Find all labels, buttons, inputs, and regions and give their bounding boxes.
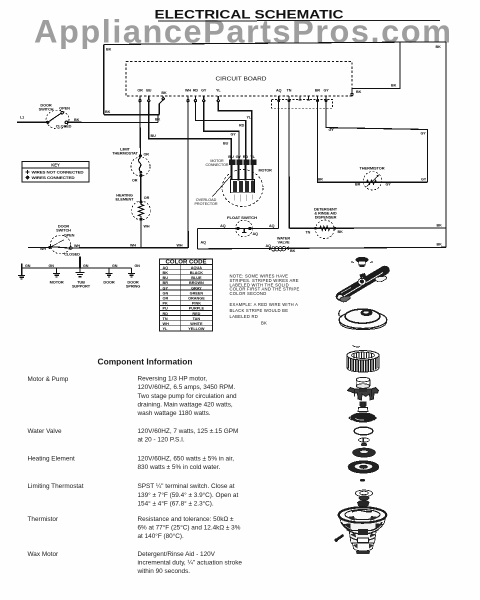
svg-text:BLUE: BLUE bbox=[191, 276, 202, 280]
svg-text:120V/60HZ, 7 watts, 125 ±.15 G: 120V/60HZ, 7 watts, 125 ±.15 GPM bbox=[138, 428, 239, 435]
pump bolt bbox=[335, 535, 344, 542]
spray arm bbox=[336, 266, 389, 300]
svg-text:RED: RED bbox=[192, 312, 200, 316]
wire door switch to WH bottom bbox=[72, 247, 81, 249]
spray arm clip right bbox=[375, 276, 387, 282]
overload protector OL1 bbox=[194, 175, 232, 206]
board pin RD bbox=[193, 89, 199, 102]
svg-text:OPEN: OPEN bbox=[64, 232, 75, 237]
svg-text:AQUA: AQUA bbox=[191, 266, 202, 270]
parts diagram bbox=[335, 257, 390, 554]
svg-text:TN: TN bbox=[163, 317, 168, 321]
wire float switch line bbox=[198, 228, 279, 230]
spray arm clip left bbox=[340, 296, 350, 302]
color code table bbox=[160, 259, 213, 331]
svg-text:Limiting Thermostat: Limiting Thermostat bbox=[28, 483, 84, 490]
wire WH vertical from board bbox=[187, 102, 189, 248]
svg-text:6% at 77°F (25°C) and 12.4kΩ: 6% at 77°F (25°C) and 12.4kΩ ± 3% bbox=[138, 523, 241, 531]
svg-text:139° ± 7°F (59.4° ± 3.9°C). O: 139° ± 7°F (59.4° ± 3.9°C). Open at bbox=[138, 491, 239, 499]
o-ring bbox=[354, 427, 373, 435]
svg-text:YELLOW: YELLOW bbox=[188, 327, 205, 331]
door switch S1 (upper) bbox=[39, 103, 72, 129]
svg-text:BU: BU bbox=[151, 134, 157, 138]
wire L1 to door switch bbox=[17, 121, 48, 123]
board pin OR bbox=[137, 89, 143, 102]
wire OR to heating element bbox=[140, 176, 142, 201]
wire BK right edge bbox=[445, 42, 447, 248]
circuit board U1 dashed box bbox=[126, 62, 352, 97]
connector dashed sub box bbox=[272, 100, 333, 109]
svg-text:WH: WH bbox=[185, 89, 191, 93]
wire to lower door switch bbox=[28, 246, 50, 248]
wire BK from door switch bbox=[68, 121, 159, 123]
svg-text:OR: OR bbox=[137, 89, 143, 93]
svg-text:PK: PK bbox=[163, 302, 169, 306]
svg-text:FLOAT SWITCH: FLOAT SWITCH bbox=[227, 215, 257, 220]
svg-text:SUPPORT: SUPPORT bbox=[72, 284, 91, 289]
water valve V1 coil bbox=[266, 235, 296, 253]
svg-text:TN: TN bbox=[306, 230, 311, 234]
svg-text:AQ: AQ bbox=[201, 241, 207, 245]
component info bbox=[28, 356, 243, 575]
pump housing bbox=[339, 507, 387, 554]
svg-text:MOTOR: MOTOR bbox=[259, 168, 273, 172]
board pin unused 2 bbox=[307, 96, 310, 100]
svg-text:PROTECTOR: PROTECTOR bbox=[194, 202, 217, 206]
svg-text:OR: OR bbox=[163, 297, 169, 301]
svg-text:Component Information: Component Information bbox=[98, 356, 193, 366]
svg-text:THERMISTOR: THERMISTOR bbox=[360, 166, 385, 171]
svg-text:AQ: AQ bbox=[276, 89, 282, 93]
board pin GY bbox=[201, 89, 207, 102]
svg-text:Water Valve: Water Valve bbox=[28, 428, 63, 435]
wire AQ from board to float switch bbox=[277, 102, 279, 229]
svg-text:BK: BK bbox=[391, 84, 397, 88]
wire GY from board over thermistor box bbox=[326, 102, 427, 183]
filter drum bbox=[347, 351, 379, 373]
svg-text:Heating Element: Heating Element bbox=[28, 456, 75, 463]
svg-text:GREEN: GREEN bbox=[190, 291, 204, 295]
svg-text:GY: GY bbox=[163, 286, 169, 290]
wire WH heating to bottom bbox=[140, 220, 142, 248]
wire RD from board bbox=[195, 102, 245, 160]
svg-text:BLACK STRIPE WOULD BE: BLACK STRIPE WOULD BE bbox=[230, 308, 289, 313]
svg-text:CIRCUIT BOARD: CIRCUIT BOARD bbox=[216, 77, 267, 83]
svg-text:DOOR: DOOR bbox=[103, 280, 115, 285]
support disc bbox=[339, 309, 387, 329]
svg-text:RD: RD bbox=[163, 312, 169, 316]
svg-text:SPST ¼" terminal switch. Clos: SPST ¼" terminal switch. Close at bbox=[138, 483, 235, 490]
svg-text:WIRES CONNECTED: WIRES CONNECTED bbox=[32, 175, 75, 180]
motor M1 windings bbox=[222, 165, 272, 207]
svg-text:VALVE: VALVE bbox=[278, 239, 290, 244]
ground sym 1 bbox=[18, 268, 25, 279]
pump coupling bbox=[348, 377, 379, 400]
svg-text:GN: GN bbox=[25, 264, 31, 268]
door switch S2 (lower) bbox=[49, 223, 81, 256]
svg-text:TAN: TAN bbox=[193, 317, 201, 321]
svg-text:PINK: PINK bbox=[192, 302, 201, 306]
svg-text:BK: BK bbox=[437, 243, 443, 247]
svg-text:THERMOSTAT: THERMOSTAT bbox=[112, 151, 138, 156]
board pin unused 1 bbox=[299, 96, 302, 100]
watermark bbox=[34, 14, 451, 50]
svg-text:BK: BK bbox=[338, 230, 344, 234]
wax motor W1 (dispenser) bbox=[306, 206, 344, 238]
drain impeller ring bbox=[348, 461, 379, 473]
svg-text:EXAMPLE: A RED WIRE WITH A: EXAMPLE: A RED WIRE WITH A bbox=[230, 302, 299, 307]
tables and notes bbox=[160, 259, 300, 331]
svg-text:PURPLE: PURPLE bbox=[189, 307, 205, 311]
svg-text:WH: WH bbox=[163, 322, 170, 326]
svg-text:CONNECTOR: CONNECTOR bbox=[205, 163, 228, 167]
svg-text:GN: GN bbox=[83, 264, 89, 268]
svg-text:KEY: KEY bbox=[51, 163, 60, 168]
board pin BR bbox=[315, 89, 321, 102]
svg-text:ELEMENT: ELEMENT bbox=[116, 197, 135, 202]
svg-text:BU: BU bbox=[223, 142, 229, 146]
svg-text:154° ± 4°F (67.8° ± 2.3°C).: 154° ± 4°F (67.8° ± 2.3°C). bbox=[138, 499, 214, 507]
svg-text:GN: GN bbox=[49, 264, 55, 268]
flanged seat bbox=[355, 490, 372, 500]
callout arc bbox=[353, 346, 361, 348]
svg-text:120V/60HZ, 6.5 amps, 3450 RPM.: 120V/60HZ, 6.5 amps, 3450 RPM. bbox=[138, 384, 236, 391]
svg-text:MOTOR: MOTOR bbox=[50, 280, 64, 285]
board pin BK right bbox=[351, 90, 362, 96]
svg-text:BK: BK bbox=[356, 90, 362, 94]
svg-text:BK: BK bbox=[74, 118, 80, 122]
board pin BK bbox=[161, 91, 167, 100]
seal stem bbox=[359, 438, 370, 446]
svg-text:WIRES NOT CONNECTED: WIRES NOT CONNECTED bbox=[32, 169, 84, 174]
wire GY from board bbox=[204, 102, 239, 160]
motor dashed circle bbox=[235, 195, 253, 202]
svg-text:SWITCH: SWITCH bbox=[39, 107, 54, 112]
svg-text:OR: OR bbox=[144, 196, 150, 200]
svg-text:Detergent/Rinse Aid - 120V: Detergent/Rinse Aid - 120V bbox=[138, 551, 216, 558]
svg-text:BK: BK bbox=[436, 45, 442, 49]
wire AQ down to water valve line bbox=[197, 229, 199, 249]
wire BK stub to BK pin bbox=[159, 100, 163, 115]
wire BU from board bbox=[149, 102, 232, 160]
svg-text:L1: L1 bbox=[20, 116, 24, 120]
svg-text:CLOSED: CLOSED bbox=[56, 123, 72, 128]
svg-text:Thermistor: Thermistor bbox=[28, 516, 59, 523]
svg-text:BROWN: BROWN bbox=[189, 281, 204, 285]
svg-text:BR: BR bbox=[318, 178, 324, 182]
svg-text:GRAY: GRAY bbox=[191, 286, 202, 290]
svg-text:CLOSED: CLOSED bbox=[64, 251, 80, 256]
svg-text:830 watts ± 5% in cold water.: 830 watts ± 5% in cold water. bbox=[138, 464, 221, 471]
svg-text:Resistance and tolerance: 50k: Resistance and tolerance: 50kΩ ± bbox=[138, 516, 235, 523]
svg-text:BR: BR bbox=[315, 89, 321, 93]
key box bbox=[22, 162, 89, 183]
svg-text:YL: YL bbox=[247, 116, 252, 120]
svg-text:BK: BK bbox=[163, 271, 169, 275]
svg-text:OR: OR bbox=[144, 153, 150, 157]
ground sym tub support bbox=[76, 268, 85, 277]
svg-text:AQ: AQ bbox=[220, 224, 226, 228]
board pin WH bbox=[185, 89, 191, 102]
limit thermostat TH1 bbox=[112, 147, 150, 183]
ground sym motor bbox=[53, 268, 60, 277]
svg-text:BK: BK bbox=[437, 223, 443, 227]
svg-text:WH: WH bbox=[130, 243, 136, 247]
svg-text:incremental duty, ¼" actuation: incremental duty, ¼" actuation stroke bbox=[138, 559, 243, 566]
svg-text:LABELED RD: LABELED RD bbox=[230, 314, 259, 319]
title bbox=[155, 8, 441, 22]
small dot bbox=[360, 479, 365, 482]
board pin YL bbox=[216, 89, 221, 102]
svg-text:120V/60HZ, 650 watts ± 5% in a: 120V/60HZ, 650 watts ± 5% in air, bbox=[138, 456, 235, 463]
svg-text:WH: WH bbox=[144, 225, 150, 229]
svg-text:GY: GY bbox=[386, 182, 392, 186]
svg-text:GY: GY bbox=[231, 132, 237, 136]
svg-text:AQ: AQ bbox=[163, 266, 169, 270]
thermistor RT1 bbox=[355, 166, 391, 191]
svg-text:BR: BR bbox=[163, 281, 169, 285]
svg-text:BR: BR bbox=[355, 182, 361, 186]
svg-text:GY: GY bbox=[236, 154, 242, 159]
svg-text:WH: WH bbox=[40, 247, 46, 251]
svg-text:GN: GN bbox=[163, 291, 169, 295]
svg-text:GN: GN bbox=[112, 264, 118, 268]
svg-text:YL: YL bbox=[163, 327, 169, 331]
seal disc bbox=[353, 448, 376, 457]
wire BK jog up bbox=[157, 115, 159, 123]
wire BK horizontal to left edge bbox=[104, 114, 160, 116]
svg-text:draining. Main wattage 420 wa: draining. Main wattage 420 watts, bbox=[138, 401, 233, 408]
board pin TN bbox=[287, 89, 292, 102]
svg-text:BK: BK bbox=[161, 91, 167, 95]
ground sym door bbox=[106, 268, 113, 277]
svg-text:GY: GY bbox=[329, 128, 335, 132]
svg-text:ORANGE: ORANGE bbox=[188, 297, 205, 301]
svg-text:Motor & Pump: Motor & Pump bbox=[28, 376, 69, 383]
svg-text:OPEN: OPEN bbox=[59, 105, 70, 110]
svg-text:Wax Motor: Wax Motor bbox=[28, 551, 60, 558]
svg-text:Two stage pump for circulation: Two stage pump for circulation and bbox=[138, 393, 238, 400]
svg-text:at 140°F (80°C).: at 140°F (80°C). bbox=[138, 532, 185, 540]
svg-text:RD: RD bbox=[239, 124, 245, 128]
svg-text:OR: OR bbox=[132, 179, 138, 183]
svg-text:PU: PU bbox=[163, 307, 169, 311]
svg-text:AQ: AQ bbox=[269, 224, 275, 228]
svg-text:GN: GN bbox=[135, 264, 141, 268]
svg-text:BK: BK bbox=[155, 118, 161, 122]
note text bbox=[230, 274, 300, 326]
shaft key bbox=[360, 402, 367, 407]
svg-text:GY: GY bbox=[421, 132, 427, 136]
wire BK left edge bbox=[103, 45, 105, 115]
float switch S3 bbox=[220, 215, 274, 237]
wire BK top edge bbox=[104, 42, 446, 45]
title underline bbox=[158, 19, 440, 22]
svg-text:WHITE: WHITE bbox=[190, 322, 203, 326]
wire YL from board bbox=[218, 102, 252, 160]
ground bus wire bbox=[18, 257, 140, 289]
ground sym door spring bbox=[128, 268, 135, 277]
svg-text:BU: BU bbox=[228, 154, 234, 159]
svg-text:at 20 - 120 P.S.I.: at 20 - 120 P.S.I. bbox=[138, 437, 185, 444]
svg-text:GY: GY bbox=[201, 89, 207, 93]
svg-text:BU: BU bbox=[146, 89, 152, 93]
retainer bit bbox=[358, 501, 370, 508]
svg-text:GY: GY bbox=[421, 178, 427, 182]
svg-text:BK: BK bbox=[290, 249, 296, 253]
svg-text:within 90 seconds.: within 90 seconds. bbox=[137, 568, 191, 575]
svg-text:wash wattage 1180 watts.: wash wattage 1180 watts. bbox=[137, 410, 211, 417]
svg-text:COLOR CODE: COLOR CODE bbox=[166, 260, 208, 266]
wire BR from board to thermistor bbox=[317, 102, 427, 183]
wire OR to limit thermostat bbox=[139, 102, 141, 158]
pump cap bbox=[351, 257, 373, 266]
wire WH neutral bottom bbox=[81, 247, 189, 249]
svg-text:RD: RD bbox=[193, 89, 199, 93]
board pin AQ bbox=[276, 89, 282, 102]
wire water valve line bbox=[198, 247, 446, 249]
svg-text:YL: YL bbox=[216, 89, 221, 93]
wire TN from board to dispenser bbox=[288, 102, 290, 229]
svg-text:RD: RD bbox=[243, 154, 249, 159]
svg-text:YL: YL bbox=[250, 154, 255, 159]
wire dispenser line bbox=[289, 227, 446, 229]
wire BK drop to board bbox=[352, 42, 400, 93]
motor connector J1 bbox=[205, 154, 256, 167]
svg-text:BU: BU bbox=[163, 276, 169, 280]
board pin GY2 bbox=[324, 89, 330, 102]
svg-text:GY: GY bbox=[324, 89, 330, 93]
svg-text:BK: BK bbox=[106, 48, 112, 52]
svg-text:AQ: AQ bbox=[253, 232, 259, 236]
wash impeller bbox=[349, 402, 376, 422]
heating element R1 bbox=[116, 193, 151, 229]
svg-text:BK: BK bbox=[105, 110, 111, 114]
svg-text:COLOR SECOND: COLOR SECOND bbox=[230, 291, 267, 296]
svg-text:WH: WH bbox=[177, 243, 183, 247]
svg-text:DISPENSER: DISPENSER bbox=[315, 214, 337, 219]
svg-text:BK: BK bbox=[261, 320, 267, 325]
svg-text:BLACK: BLACK bbox=[190, 271, 204, 275]
svg-text:TN: TN bbox=[287, 89, 292, 93]
svg-text:Reversing 1/3 HP motor,: Reversing 1/3 HP motor, bbox=[138, 376, 208, 383]
board pin BU bbox=[146, 89, 152, 102]
svg-text:ELECTRICAL SCHEMATIC: ELECTRICAL SCHEMATIC bbox=[155, 8, 344, 22]
svg-text:SPRING: SPRING bbox=[126, 284, 140, 289]
